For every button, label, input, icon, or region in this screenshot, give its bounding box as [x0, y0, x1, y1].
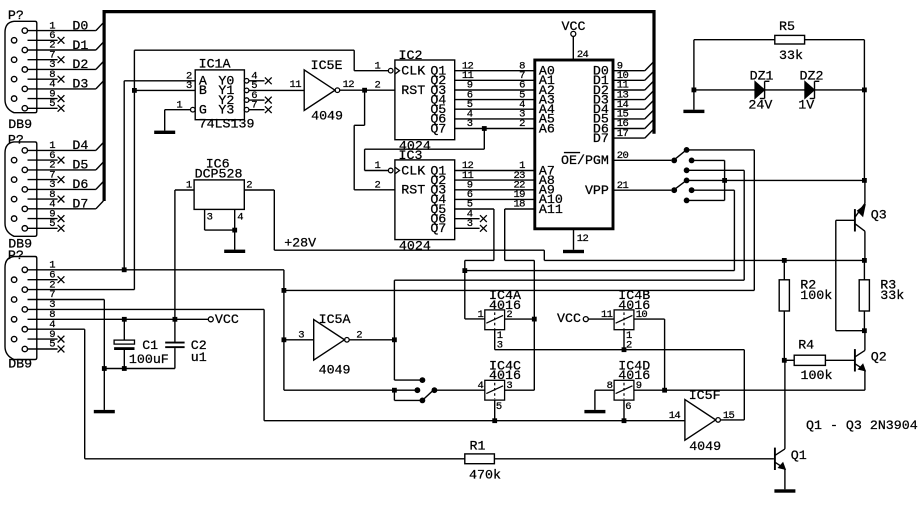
- svg-text:Q2: Q2: [871, 349, 887, 364]
- svg-text:3: 3: [186, 80, 192, 92]
- svg-text:2: 2: [356, 330, 362, 342]
- svg-text:4: 4: [478, 380, 484, 392]
- svg-text:3: 3: [467, 118, 473, 130]
- svg-text:4: 4: [237, 212, 243, 224]
- svg-text:4049: 4049: [319, 362, 351, 377]
- svg-text:DZ2: DZ2: [800, 68, 824, 83]
- svg-text:OE/PGM: OE/PGM: [561, 153, 609, 168]
- svg-text:24: 24: [577, 49, 589, 61]
- svg-text:21: 21: [617, 180, 629, 192]
- svg-text:17: 17: [617, 128, 629, 140]
- svg-text:Q1: Q1: [791, 448, 807, 463]
- svg-text:33k: 33k: [880, 288, 904, 303]
- svg-text:P?: P?: [8, 8, 24, 23]
- svg-text:5: 5: [496, 401, 502, 413]
- svg-text:VCC: VCC: [215, 312, 239, 327]
- svg-text:IC5E: IC5E: [311, 58, 343, 73]
- svg-text:D4: D4: [72, 138, 88, 153]
- svg-text:2: 2: [375, 180, 381, 192]
- svg-text:3: 3: [298, 330, 304, 342]
- svg-text:6: 6: [625, 401, 631, 413]
- svg-text:IC5F: IC5F: [689, 388, 721, 403]
- svg-text:D0: D0: [72, 18, 88, 33]
- svg-text:1: 1: [478, 309, 484, 321]
- svg-text:5: 5: [49, 98, 55, 110]
- svg-text:CLK: CLK: [401, 163, 425, 178]
- svg-text:RST: RST: [401, 183, 425, 198]
- svg-text:IC2: IC2: [399, 48, 423, 63]
- svg-text:VPP: VPP: [585, 183, 609, 198]
- svg-text:IC3: IC3: [399, 148, 423, 163]
- svg-text:15: 15: [723, 410, 735, 422]
- svg-text:33k: 33k: [779, 48, 803, 63]
- svg-text:CLK: CLK: [401, 64, 425, 79]
- svg-text:2: 2: [519, 118, 525, 130]
- svg-text:5: 5: [49, 218, 55, 230]
- svg-text:VCC: VCC: [562, 19, 586, 34]
- svg-text:2: 2: [375, 80, 381, 92]
- svg-text:12: 12: [577, 233, 589, 245]
- svg-text:100uF: 100uF: [129, 352, 169, 367]
- svg-text:100k: 100k: [801, 368, 833, 383]
- svg-text:1V: 1V: [798, 98, 814, 113]
- svg-text:D6: D6: [72, 177, 88, 192]
- svg-text:5: 5: [49, 339, 55, 351]
- svg-text:14: 14: [669, 410, 681, 422]
- svg-text:9: 9: [636, 380, 642, 392]
- svg-text:P?: P?: [8, 132, 24, 147]
- svg-text:2: 2: [626, 340, 632, 352]
- svg-text:Q1 - Q3 2N3904: Q1 - Q3 2N3904: [806, 418, 918, 433]
- svg-text:u1: u1: [191, 350, 207, 365]
- svg-text:R5: R5: [779, 19, 795, 34]
- svg-text:D7: D7: [593, 131, 609, 146]
- svg-text:B: B: [199, 83, 207, 98]
- svg-text:4049: 4049: [311, 109, 343, 124]
- svg-text:C1: C1: [142, 338, 158, 353]
- svg-text:A11: A11: [539, 202, 563, 217]
- svg-text:100k: 100k: [800, 288, 832, 303]
- svg-text:Y3: Y3: [218, 103, 234, 118]
- svg-text:D3: D3: [72, 77, 88, 92]
- svg-text:3: 3: [207, 212, 213, 224]
- svg-text:470k: 470k: [469, 468, 501, 483]
- svg-text:11: 11: [601, 309, 613, 321]
- svg-text:DCP528: DCP528: [195, 166, 243, 181]
- svg-text:3: 3: [506, 380, 512, 392]
- svg-text:18: 18: [513, 199, 525, 211]
- svg-text:1: 1: [176, 99, 182, 111]
- svg-text:4024: 4024: [399, 239, 431, 254]
- svg-text:DZ1: DZ1: [750, 68, 774, 83]
- svg-text:11: 11: [290, 79, 302, 91]
- svg-text:7: 7: [251, 99, 257, 111]
- svg-text:1: 1: [375, 60, 381, 72]
- svg-text:RST: RST: [401, 83, 425, 98]
- svg-text:20: 20: [617, 150, 629, 162]
- svg-text:74LS139: 74LS139: [199, 117, 255, 132]
- svg-text:Q7: Q7: [430, 221, 446, 236]
- svg-text:R4: R4: [798, 337, 814, 352]
- svg-text:D5: D5: [72, 158, 88, 173]
- svg-text:8: 8: [607, 380, 613, 392]
- svg-text:IC5A: IC5A: [319, 312, 351, 327]
- svg-text:A6: A6: [539, 121, 555, 136]
- svg-text:4016: 4016: [489, 368, 521, 383]
- svg-text:P?: P?: [8, 248, 24, 263]
- svg-text:24V: 24V: [748, 98, 772, 113]
- svg-text:2: 2: [246, 180, 252, 192]
- svg-text:3: 3: [467, 218, 473, 230]
- svg-text:DB9: DB9: [8, 117, 32, 132]
- svg-text:10: 10: [636, 309, 648, 321]
- svg-text:4016: 4016: [489, 298, 521, 313]
- svg-text:Q3: Q3: [871, 207, 887, 222]
- svg-text:R1: R1: [470, 439, 486, 454]
- svg-text:Q7: Q7: [430, 121, 446, 136]
- svg-text:+28V: +28V: [284, 235, 316, 250]
- svg-text:D1: D1: [72, 38, 88, 53]
- svg-text:1: 1: [375, 160, 381, 172]
- svg-text:3: 3: [497, 340, 503, 352]
- svg-text:VCC: VCC: [557, 311, 581, 326]
- svg-text:DB9: DB9: [8, 357, 32, 372]
- svg-text:4049: 4049: [689, 439, 721, 454]
- svg-text:G: G: [199, 103, 207, 118]
- svg-text:12: 12: [343, 79, 355, 91]
- svg-text:1: 1: [186, 180, 192, 192]
- svg-text:4016: 4016: [618, 368, 650, 383]
- svg-text:D7: D7: [72, 197, 88, 212]
- svg-text:2: 2: [506, 309, 512, 321]
- svg-text:IC1A: IC1A: [199, 57, 231, 72]
- svg-text:D2: D2: [72, 57, 88, 72]
